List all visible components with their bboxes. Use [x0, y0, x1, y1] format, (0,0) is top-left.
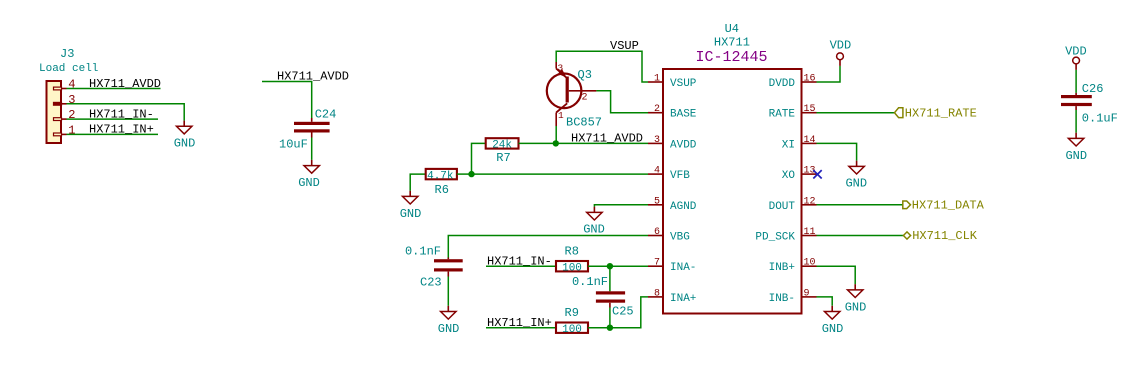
svg-text:16: 16	[804, 74, 816, 85]
svg-text:C23: C23	[420, 275, 442, 289]
wire C23 to ground	[447, 277, 449, 306]
wire INB- to ground	[817, 297, 833, 306]
svg-text:7: 7	[654, 258, 660, 269]
svg-text:INA+: INA+	[670, 293, 696, 305]
svg-text:C25: C25	[612, 305, 634, 319]
svg-text:XO: XO	[782, 170, 796, 182]
wire INB+ to ground	[817, 266, 856, 284]
capacitor C26	[1061, 82, 1118, 126]
svg-text:4.7k: 4.7k	[427, 170, 454, 182]
svg-text:0.1nF: 0.1nF	[572, 275, 608, 289]
svg-text:XI: XI	[782, 139, 795, 151]
svg-text:C24: C24	[315, 108, 337, 122]
ground C24	[298, 160, 320, 190]
svg-text:GND: GND	[174, 136, 196, 150]
svg-text:INA-: INA-	[670, 262, 696, 274]
svg-text:R7: R7	[496, 151, 510, 165]
svg-text:GND: GND	[438, 322, 460, 336]
wire PD_SCK	[817, 235, 904, 237]
svg-text:IC-12445: IC-12445	[695, 49, 767, 66]
hierarchical label HX711_CLK	[903, 229, 977, 243]
svg-text:U4: U4	[725, 22, 739, 36]
svg-text:GND: GND	[822, 322, 844, 336]
svg-text:INB-: INB-	[769, 293, 795, 305]
wire XI to ground	[817, 143, 857, 160]
svg-text:VSUP: VSUP	[670, 78, 697, 90]
svg-text:12: 12	[804, 196, 816, 207]
svg-text:J3: J3	[60, 47, 74, 61]
hierarchical label HX711_RATE	[895, 106, 977, 120]
wire DVDD to VDD	[817, 66, 841, 82]
wire emitter to VSUP	[556, 51, 648, 82]
ground R6	[400, 191, 422, 221]
svg-text:GND: GND	[1065, 149, 1087, 163]
no-connect XO	[813, 170, 821, 178]
svg-text:10: 10	[804, 258, 816, 269]
ground INB-	[822, 306, 844, 336]
wire R8 to INA- pin7	[588, 265, 648, 267]
wire R6 to junction	[457, 173, 472, 175]
capacitor C24	[279, 108, 336, 152]
svg-text:BASE: BASE	[670, 109, 697, 121]
svg-text:0.1uF: 0.1uF	[1082, 112, 1118, 126]
U4 right pins	[755, 74, 816, 305]
svg-text:HX711: HX711	[714, 35, 750, 49]
wire DOUT	[817, 204, 903, 206]
svg-text:4: 4	[654, 166, 660, 177]
svg-text:VDD: VDD	[830, 38, 852, 52]
svg-text:GND: GND	[845, 300, 867, 314]
capacitor C23	[405, 245, 463, 290]
ground C23	[438, 306, 460, 336]
svg-text:Q3: Q3	[578, 68, 592, 82]
wire R7 to junction	[519, 142, 556, 144]
resistor R6	[426, 169, 457, 197]
junction emitter/R7	[553, 140, 559, 146]
svg-text:AVDD: AVDD	[670, 139, 697, 151]
svg-text:0.1nF: 0.1nF	[405, 245, 441, 259]
ground XI	[845, 161, 867, 191]
svg-text:2: 2	[68, 108, 75, 122]
wire R6 left	[410, 174, 426, 191]
resistor R9	[556, 306, 588, 336]
svg-text:4: 4	[68, 78, 75, 92]
svg-text:GND: GND	[583, 222, 605, 236]
wire C26 to ground	[1075, 110, 1077, 133]
svg-text:GND: GND	[845, 176, 867, 190]
wire junction to AVDD pin3	[556, 142, 648, 144]
svg-text:HX711_AVDD: HX711_AVDD	[89, 77, 161, 91]
svg-text:RATE: RATE	[769, 109, 796, 121]
svg-text:R9: R9	[565, 306, 579, 320]
wire AGND to ground	[594, 205, 648, 207]
svg-text:R6: R6	[435, 183, 449, 197]
wire J3 pin3 to ground	[67, 104, 185, 121]
wire C25 to INA+ net	[609, 308, 611, 328]
svg-text:6: 6	[654, 227, 660, 238]
svg-text:Load cell: Load cell	[39, 63, 98, 75]
svg-text:HX711_RATE: HX711_RATE	[905, 106, 977, 120]
svg-text:HX711_CLK: HX711_CLK	[912, 229, 978, 243]
junction INA+	[607, 325, 613, 331]
svg-text:3: 3	[68, 93, 75, 107]
svg-text:2: 2	[654, 104, 660, 115]
transistor Q3	[547, 62, 602, 130]
IC U4 body	[663, 69, 802, 314]
svg-text:VFB: VFB	[670, 170, 690, 182]
wire C24 to ground	[311, 138, 313, 160]
wire to R9	[486, 327, 556, 329]
svg-text:HX711_DATA: HX711_DATA	[912, 198, 985, 212]
svg-text:HX711_IN+: HX711_IN+	[89, 123, 154, 137]
svg-text:R8: R8	[565, 244, 579, 258]
svg-text:VBG: VBG	[670, 232, 690, 244]
wire base to BASE pin2	[596, 91, 648, 113]
ground J3	[174, 121, 196, 151]
wire R9 to INA+ pin8	[588, 297, 648, 328]
ground AGND	[583, 207, 605, 237]
svg-text:3: 3	[654, 135, 660, 146]
wire VDD to C26	[1075, 70, 1077, 93]
ground C26	[1065, 133, 1087, 163]
junction INA-	[607, 263, 613, 269]
svg-text:DOUT: DOUT	[769, 201, 796, 213]
svg-text:8: 8	[654, 288, 660, 299]
wire J3 pin4	[67, 88, 161, 90]
resistor R8	[556, 244, 588, 274]
svg-text:GND: GND	[400, 207, 422, 221]
wire J3 pin1	[67, 133, 159, 135]
wire to R8	[486, 265, 556, 267]
svg-text:2: 2	[582, 93, 588, 104]
wire collector down to junction	[555, 126, 557, 143]
svg-text:1: 1	[68, 123, 75, 137]
svg-text:100: 100	[562, 262, 582, 274]
svg-text:1: 1	[558, 110, 564, 121]
capacitor C25	[572, 266, 634, 318]
svg-text:GND: GND	[298, 176, 320, 190]
junction R6/R7	[468, 171, 474, 177]
svg-text:3: 3	[558, 62, 564, 73]
svg-text:10uF: 10uF	[279, 138, 308, 152]
wire junction up to R7	[472, 143, 486, 174]
svg-text:BC857: BC857	[566, 116, 602, 130]
svg-text:VSUP: VSUP	[610, 39, 639, 53]
svg-text:INB+: INB+	[769, 262, 795, 274]
svg-text:AGND: AGND	[670, 201, 697, 213]
wire junction to VFB pin4	[472, 173, 649, 175]
svg-text:14: 14	[804, 135, 816, 146]
svg-text:11: 11	[804, 227, 816, 238]
wire RATE	[817, 112, 895, 114]
wire VBG to C23	[448, 236, 648, 258]
svg-text:DVDD: DVDD	[769, 78, 796, 90]
svg-text:C26: C26	[1082, 82, 1104, 96]
power VDD (DVDD)	[830, 38, 852, 66]
svg-text:HX711_AVDD: HX711_AVDD	[571, 131, 643, 145]
svg-text:100: 100	[562, 324, 582, 336]
svg-text:1: 1	[654, 74, 660, 85]
svg-text:PD_SCK: PD_SCK	[755, 232, 795, 244]
svg-text:24k: 24k	[492, 140, 512, 152]
svg-text:5: 5	[654, 196, 660, 207]
wire HX711_AVDD to C24	[262, 82, 312, 119]
wire J3 pin2	[67, 118, 159, 120]
svg-text:HX711_IN-: HX711_IN-	[89, 107, 154, 121]
resistor R7	[486, 138, 519, 165]
ground INB+	[845, 284, 867, 314]
svg-text:9: 9	[804, 288, 810, 299]
hierarchical label HX711_DATA	[903, 198, 985, 212]
svg-text:15: 15	[804, 104, 816, 115]
U4 left pins	[648, 74, 697, 305]
power VDD (C26)	[1065, 45, 1087, 70]
connector J3 body	[47, 78, 76, 144]
